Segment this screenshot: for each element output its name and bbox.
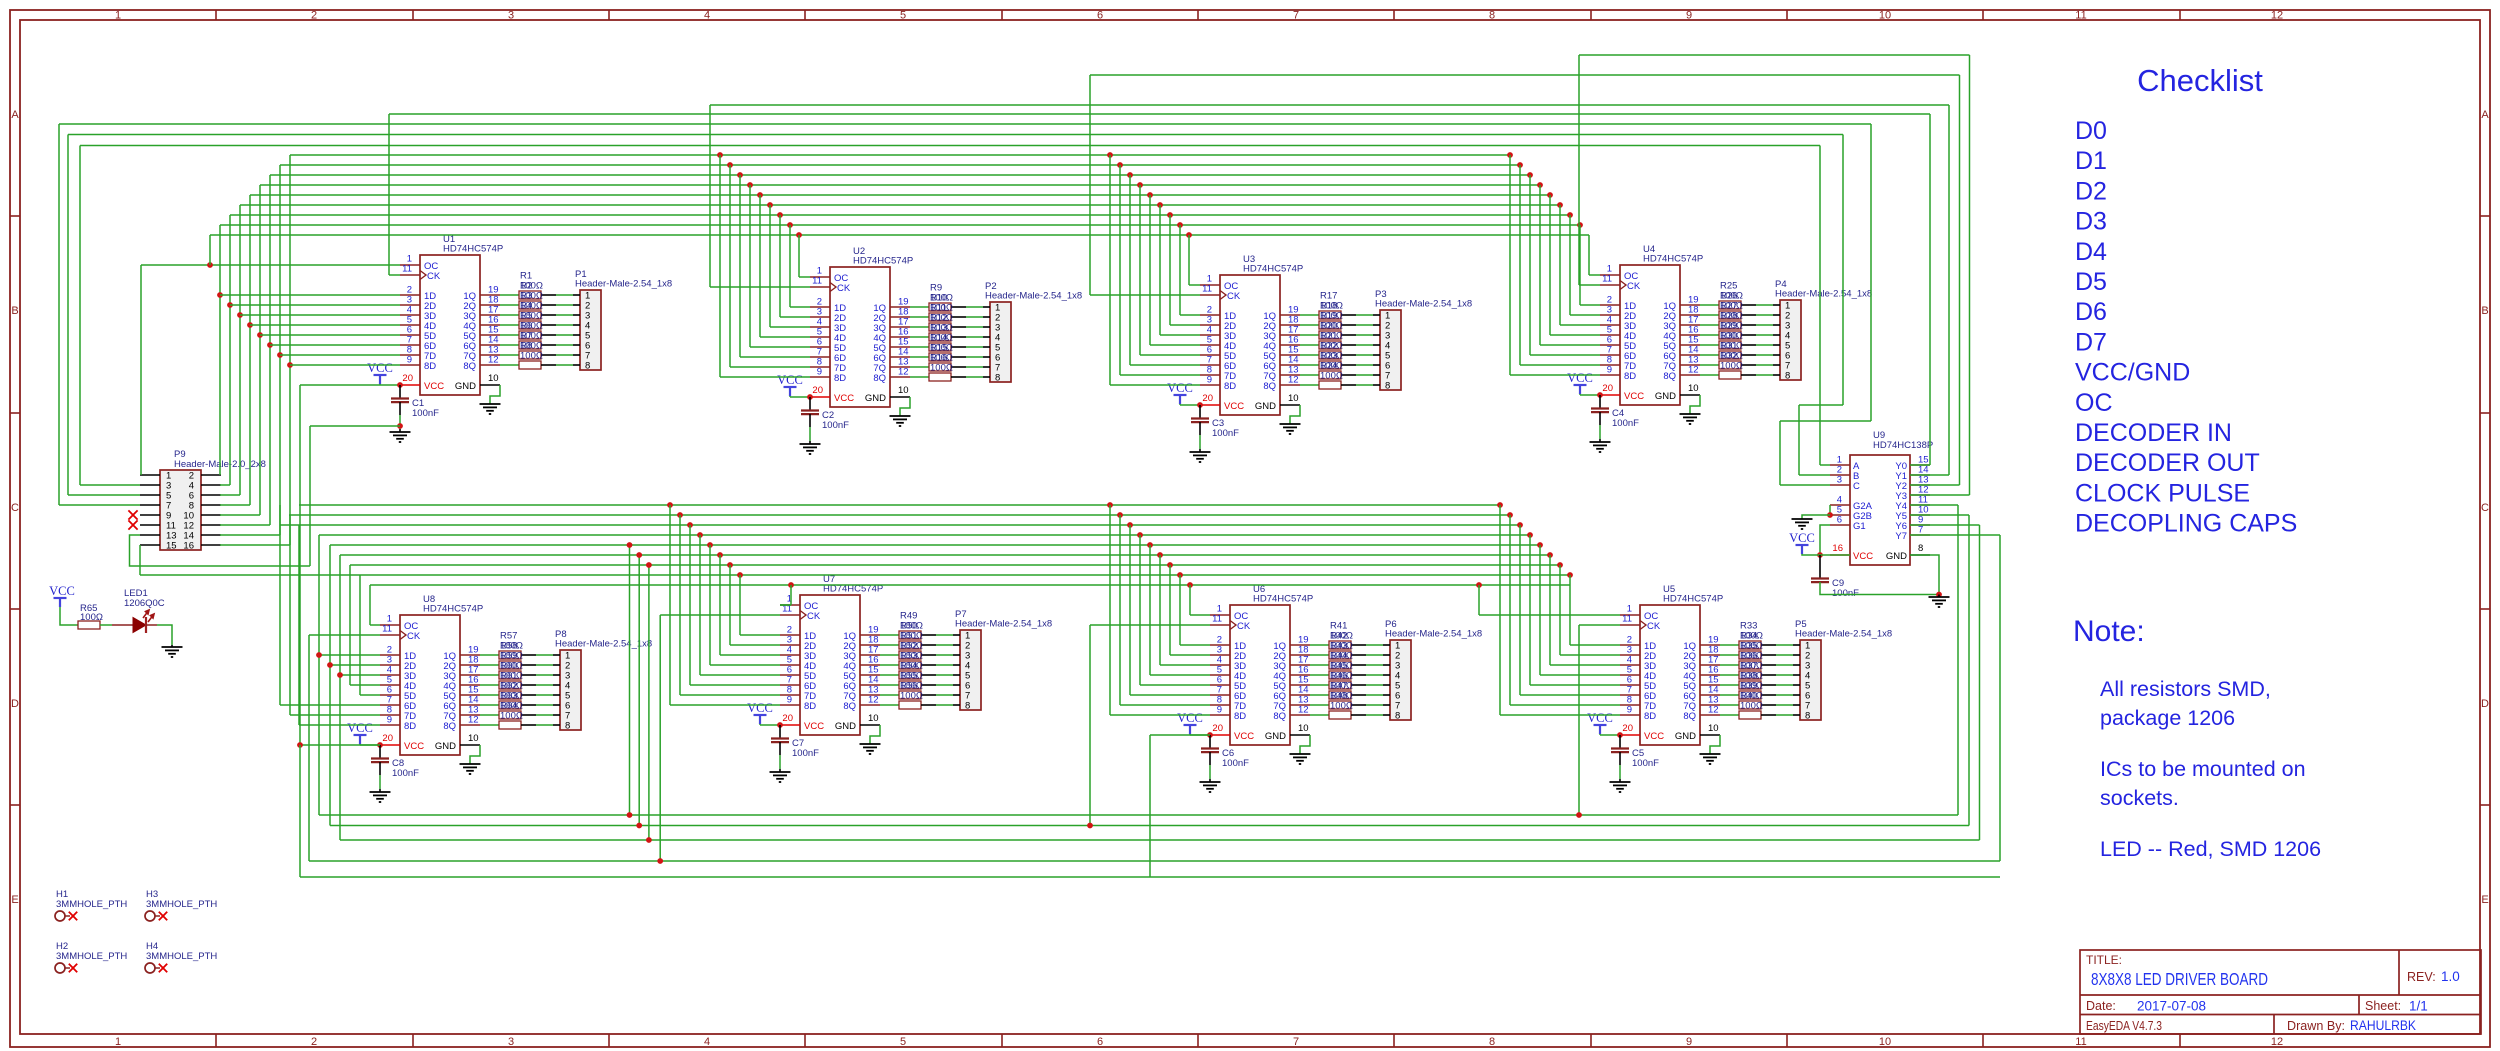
- connector P7 Header-Male-2.54_1x8: [960, 630, 981, 710]
- U6 pin 8 7D: [1210, 704, 1230, 706]
- U4 pin 17 3Q: [1680, 324, 1700, 326]
- U8 pin 17 3Q: [460, 674, 480, 676]
- svg-text:E: E: [11, 894, 18, 906]
- connector P9 Header-Male-2.0_2x8: [160, 470, 201, 550]
- U4 pin 4 3D: [1600, 324, 1620, 326]
- wire resistor R7 to header pin 7: [541, 354, 556, 356]
- svg-text:HD74HC574P: HD74HC574P: [1663, 594, 1723, 605]
- U6 pin 1 OC: [1210, 614, 1230, 616]
- svg-text:8: 8: [1918, 543, 1923, 554]
- svg-text:9: 9: [387, 715, 392, 726]
- resistor R59 100 ohm: [499, 671, 521, 679]
- wire bus to U1 1D: [220, 294, 400, 296]
- wire bus to U5 D pin: [1507, 512, 1513, 518]
- P1 pin 6: [573, 344, 580, 346]
- wire bus to U8 D pin: [330, 664, 380, 666]
- P5 pin 3: [1793, 664, 1800, 666]
- junction on U1 5D: [257, 332, 263, 338]
- IC U2 HD74HC574P: [830, 267, 890, 407]
- svg-text:11: 11: [402, 264, 412, 275]
- capacitor C6 100nF: [1209, 735, 1211, 748]
- wire resistor R10 to header pin 2: [951, 316, 966, 318]
- svg-text:9: 9: [1607, 365, 1612, 376]
- P5 pin 8: [1793, 714, 1800, 716]
- svg-text:G1: G1: [1853, 521, 1866, 532]
- svg-text:11: 11: [1202, 284, 1212, 295]
- svg-text:16: 16: [183, 541, 194, 552]
- P9 pin 12: [201, 524, 221, 526]
- IC U8 HD74HC574P: [400, 615, 460, 755]
- wire bottom data bus y515: [289, 514, 1510, 516]
- svg-text:12: 12: [488, 355, 499, 366]
- wire resistor R43 to header pin 3: [1351, 664, 1366, 666]
- svg-text:Sheet:: Sheet:: [2365, 999, 2401, 1013]
- wire OC drop: [1188, 235, 1190, 285]
- P3 pin 7: [1373, 374, 1380, 376]
- P5 pin 2: [1793, 654, 1800, 656]
- wire bus drop to IC at x780: [777, 212, 783, 218]
- wire OC riser: [209, 235, 211, 265]
- P9 pin 5: [140, 494, 160, 496]
- U5 pin 19 1Q: [1700, 644, 1720, 646]
- U5 pin 17 3Q: [1700, 664, 1720, 666]
- P1 pin 5: [573, 334, 580, 336]
- wire bus drop to IC at x1580: [1577, 222, 1583, 228]
- U1 pin 20 VCC: [400, 384, 420, 386]
- wire U7 3Q to resistor R51: [880, 654, 899, 656]
- P4 pin 7: [1773, 364, 1780, 366]
- U5 pin 8 7D: [1620, 704, 1640, 706]
- U3 pin 15 5Q: [1280, 354, 1300, 356]
- U7 pin 1 OC: [780, 604, 800, 606]
- U6 pin 14 6Q: [1290, 694, 1310, 696]
- wire U3 3Q to resistor R19: [1300, 334, 1319, 336]
- wire U6 4Q to resistor R44: [1310, 674, 1329, 676]
- U9 pin 1 A: [1830, 464, 1850, 466]
- U2 pin 17 3Q: [890, 326, 910, 328]
- wire bus to U5 D pin: [1537, 542, 1543, 548]
- wire bus drop to IC at x790: [787, 222, 793, 228]
- svg-text:HD74HC574P: HD74HC574P: [1243, 264, 1303, 275]
- svg-text:HD74HC574P: HD74HC574P: [1253, 594, 1313, 605]
- wire resistor R18 to header pin 2: [1341, 324, 1356, 326]
- wire Y5 to bottom line: [1910, 514, 1969, 516]
- P6 pin 5: [1383, 684, 1390, 686]
- svg-text:D: D: [2481, 698, 2489, 710]
- P7 pin 7: [953, 694, 960, 696]
- wire data bus line 2: [240, 204, 1560, 206]
- wire resistor R11 to header pin 3: [951, 326, 966, 328]
- wire U3 5Q to resistor R21: [1300, 354, 1319, 356]
- U5 pin 16 4Q: [1700, 674, 1720, 676]
- resistor R53 100 ohm: [899, 671, 921, 679]
- svg-text:Drawn By:: Drawn By:: [2287, 1019, 2345, 1033]
- svg-text:GND: GND: [1886, 551, 1907, 562]
- wire U3 2Q to resistor R18: [1300, 324, 1319, 326]
- ground below C7: [779, 742, 781, 755]
- IC U6 HD74HC574P: [1230, 605, 1290, 745]
- P7 pin 1: [953, 634, 960, 636]
- U3 pin 9 8D: [1200, 384, 1220, 386]
- U2 pin 14 6Q: [890, 356, 910, 358]
- wire U2 6Q to resistor R14: [910, 356, 929, 358]
- ground below C1: [399, 402, 401, 415]
- wire resistor R4 to header pin 4: [541, 324, 556, 326]
- wire data bus line 3: [250, 194, 1550, 196]
- svg-text:9: 9: [787, 695, 792, 706]
- wire resistor R17 to header pin 1: [1341, 314, 1356, 316]
- P8 pin 4: [553, 684, 560, 686]
- svg-text:VCC/GND: VCC/GND: [2075, 359, 2190, 387]
- svg-text:8: 8: [1489, 10, 1495, 22]
- wire mid riser x649: [648, 565, 650, 840]
- resistor R20 100 ohm: [1319, 341, 1341, 349]
- wire VCC trunk bottom: [299, 745, 301, 877]
- ground below C4: [1599, 412, 1601, 425]
- svg-text:7: 7: [1293, 10, 1299, 22]
- wire U1 1Q to resistor R1: [500, 294, 519, 296]
- wire bus to U6 D pin: [1117, 512, 1123, 518]
- svg-text:7: 7: [1918, 525, 1923, 536]
- junction on U1 3D: [237, 312, 243, 318]
- svg-text:8: 8: [1785, 371, 1790, 382]
- svg-text:12: 12: [1688, 365, 1699, 376]
- IC U5 HD74HC574P: [1640, 605, 1700, 745]
- U6 pin 7 6D: [1210, 694, 1230, 696]
- svg-text:5: 5: [900, 10, 906, 22]
- U4 pin 9 8D: [1600, 374, 1620, 376]
- wire bus drop to IC at x1570: [1567, 212, 1573, 218]
- ground below C6: [1209, 752, 1211, 765]
- resistor R19 100 ohm: [1319, 331, 1341, 339]
- U8 pin 9 8D: [380, 724, 400, 726]
- wire U8 8Q to resistor R64: [480, 724, 499, 726]
- U3 pin 20 VCC: [1200, 404, 1220, 406]
- U5 pin 18 2Q: [1700, 654, 1720, 656]
- wire U1 5Q to resistor R5: [500, 334, 519, 336]
- svg-text:D6: D6: [2075, 298, 2107, 326]
- P9 pin 14: [201, 534, 221, 536]
- wire OC drop: [798, 235, 800, 277]
- P9 pin 4: [201, 484, 221, 486]
- svg-text:Header-Male-2.54_1x8: Header-Male-2.54_1x8: [1375, 299, 1472, 310]
- U8 pin 3 2D: [380, 664, 400, 666]
- svg-text:10: 10: [1688, 383, 1699, 394]
- wire resistor R37 to header pin 5: [1761, 684, 1776, 686]
- svg-text:CK: CK: [1647, 621, 1661, 632]
- svg-text:D4: D4: [2075, 238, 2107, 266]
- wire left riser x340: [339, 555, 341, 840]
- wire Y4 to bottom line: [1910, 504, 1958, 506]
- U7 pin 14 6Q: [860, 684, 880, 686]
- capacitor C7 100nF: [779, 725, 781, 738]
- U4 pin 11 CK: [1600, 284, 1620, 286]
- resistor R40 100 ohm: [1739, 711, 1761, 719]
- resistor R11 100 ohm: [929, 323, 951, 331]
- svg-text:OC: OC: [2075, 389, 2113, 417]
- wire resistor R5 to header pin 5: [541, 334, 556, 336]
- wire resistor R40 to header pin 8: [1761, 714, 1776, 716]
- wire bus to U5 D pin: [1497, 502, 1503, 508]
- U7 pin 12 8Q: [860, 704, 880, 706]
- wire OC net P9 pin1 vertical: [140, 265, 142, 475]
- svg-text:E: E: [2481, 894, 2488, 906]
- U3 pin 12 8Q: [1280, 384, 1300, 386]
- junction on U1 4D: [247, 322, 253, 328]
- svg-text:VCC: VCC: [367, 361, 393, 375]
- P3 pin 4: [1373, 344, 1380, 346]
- svg-text:6: 6: [1097, 1036, 1103, 1048]
- resistor R63 100 ohm: [499, 711, 521, 719]
- svg-text:All resistors SMD,: All resistors SMD,: [2100, 677, 2271, 701]
- U3 pin 4 3D: [1200, 334, 1220, 336]
- U9 pin 14 Y1: [1910, 474, 1930, 476]
- wire bus drop to IC at x1550: [1547, 192, 1553, 198]
- svg-text:9: 9: [407, 355, 412, 366]
- wire bus drop to IC at x730: [727, 162, 733, 168]
- wire bus to U6 D pin: [1137, 532, 1143, 538]
- U7 pin 10 GND: [860, 724, 880, 726]
- wire U1 7Q to resistor R7: [500, 354, 519, 356]
- U5 pin 11 CK: [1620, 624, 1640, 626]
- wire decoder input C: [59, 504, 140, 506]
- wire P9 pin15 to bus: [139, 545, 141, 575]
- svg-text:HD74HC138P: HD74HC138P: [1873, 440, 1933, 451]
- wire resistor R34 to header pin 2: [1761, 654, 1776, 656]
- svg-text:11: 11: [1622, 614, 1632, 625]
- resistor R12 100 ohm: [929, 333, 951, 341]
- resistor R36 100 ohm: [1739, 671, 1761, 679]
- svg-text:9: 9: [1686, 10, 1692, 22]
- U3 pin 3 2D: [1200, 324, 1220, 326]
- P5 pin 1: [1793, 644, 1800, 646]
- svg-text:VCC: VCC: [1224, 401, 1244, 412]
- wire resistor R59 to header pin 3: [521, 674, 536, 676]
- svg-text:VCC: VCC: [834, 393, 854, 404]
- svg-text:12: 12: [2271, 1036, 2283, 1048]
- ground at U4 GND pin: [1690, 395, 1700, 414]
- U9 pin 16 VCC: [1830, 554, 1850, 556]
- wire bottom OC line: [370, 584, 1570, 586]
- svg-text:8D: 8D: [1234, 711, 1246, 722]
- U8 pin 13 7Q: [460, 714, 480, 716]
- svg-text:10: 10: [1298, 723, 1309, 734]
- svg-text:D1: D1: [2075, 147, 2107, 175]
- P5 pin 7: [1793, 704, 1800, 706]
- resistor R61 100 ohm: [499, 691, 521, 699]
- svg-text:VCC: VCC: [404, 741, 424, 752]
- wire VCC flag to pin 20 of U8: [360, 744, 380, 746]
- wire net Y1 to CK: [710, 286, 810, 288]
- P9 pin 8: [201, 504, 221, 506]
- wire U2 8Q to resistor R16: [910, 376, 929, 378]
- ground below C3: [1199, 422, 1201, 435]
- svg-text:100nF: 100nF: [822, 420, 849, 431]
- U6 pin 2 1D: [1210, 644, 1230, 646]
- wire VCC flag to pin 20 of U7: [760, 724, 780, 726]
- U6 pin 4 3D: [1210, 664, 1230, 666]
- P6 pin 1: [1383, 644, 1390, 646]
- wire resistor R24 to header pin 8: [1341, 384, 1356, 386]
- U3 pin 19 1Q: [1280, 314, 1300, 316]
- U4 pin 20 VCC: [1600, 394, 1620, 396]
- U2 pin 8 7D: [810, 366, 830, 368]
- wire U6 VCC branch: [1150, 734, 1210, 736]
- P8 pin 5: [553, 694, 560, 696]
- U1 pin 19 1Q: [480, 294, 500, 296]
- svg-text:8Q: 8Q: [873, 373, 886, 384]
- wire bottom data bus y525: [280, 524, 1520, 526]
- U2 pin 16 4Q: [890, 336, 910, 338]
- P9 pin 11: [140, 524, 160, 526]
- wire resistor R14 to header pin 6: [951, 356, 966, 358]
- wire U1 6Q to resistor R6: [500, 344, 519, 346]
- wire U5 CK net: [1579, 624, 1620, 626]
- wire U4 7Q to resistor R31: [1700, 364, 1719, 366]
- svg-text:3: 3: [508, 10, 514, 22]
- wire VCC flag to pin 20 of U4: [1580, 394, 1600, 396]
- connector P5 Header-Male-2.54_1x8: [1800, 640, 1821, 720]
- ground at U2 GND pin: [900, 397, 910, 416]
- wire bus to U5 D pin: [1547, 552, 1553, 558]
- wire U6 2Q to resistor R42: [1310, 654, 1329, 656]
- U9 pin 4 G2A: [1830, 504, 1850, 506]
- P4 pin 8: [1773, 374, 1780, 376]
- svg-text:12: 12: [468, 715, 479, 726]
- wire resistor R51 to header pin 3: [921, 654, 936, 656]
- svg-text:8: 8: [1395, 711, 1400, 722]
- resistor R51 100 ohm: [899, 651, 921, 659]
- wire U1 8Q to resistor R8: [500, 364, 519, 366]
- U1 pin 1 OC: [400, 264, 420, 266]
- U7 pin 19 1Q: [860, 634, 880, 636]
- U3 pin 14 6Q: [1280, 364, 1300, 366]
- wire bus to U7 D pin: [707, 542, 713, 548]
- wire stub U7 OC: [780, 604, 791, 606]
- U5 pin 14 6Q: [1700, 694, 1720, 696]
- U2 pin 20 VCC: [810, 396, 830, 398]
- P2 pin 4: [983, 336, 990, 338]
- U3 pin 10 GND: [1280, 404, 1300, 406]
- wire resistor R39 to header pin 7: [1761, 704, 1776, 706]
- U6 pin 10 GND: [1290, 734, 1310, 736]
- wire U1 2Q to resistor R2: [500, 304, 519, 306]
- svg-text:Note:: Note:: [2073, 615, 2145, 648]
- U2 pin 18 2Q: [890, 316, 910, 318]
- P2 pin 5: [983, 346, 990, 348]
- U7 pin 16 4Q: [860, 664, 880, 666]
- U1 pin 18 2Q: [480, 304, 500, 306]
- svg-text:16: 16: [1832, 543, 1843, 554]
- U2 pin 11 CK: [810, 286, 830, 288]
- wire resistor R22 to header pin 6: [1341, 364, 1356, 366]
- svg-text:20: 20: [1212, 723, 1223, 734]
- resistor R17 100 ohm: [1319, 311, 1341, 319]
- ground at U9 G2A/G2B: [1829, 505, 1831, 515]
- U7 pin 3 2D: [780, 644, 800, 646]
- U7 pin 20 VCC: [780, 724, 800, 726]
- IC U9 HD74HC138P: [1850, 455, 1910, 565]
- svg-text:100Ω: 100Ω: [1320, 371, 1343, 382]
- resistor R26 100 ohm: [1719, 311, 1741, 319]
- P1 pin 8: [573, 364, 580, 366]
- svg-text:HD74HC574P: HD74HC574P: [1643, 254, 1703, 265]
- wire bus drop to IC at x1110: [1107, 152, 1113, 158]
- wire bus drop to IC at x1530: [1527, 172, 1533, 178]
- wire resistor R45 to header pin 5: [1351, 684, 1366, 686]
- P9 pin 16: [201, 544, 221, 546]
- wire bottom data bus y555: [340, 554, 1550, 556]
- U9 pin 2 B: [1830, 474, 1850, 476]
- wire bus to U8 D pin: [319, 654, 380, 656]
- resistor R62 100 ohm: [499, 701, 521, 709]
- svg-text:9: 9: [1207, 375, 1212, 386]
- resistor R32 100 ohm: [1719, 371, 1741, 379]
- svg-text:DECODER IN: DECODER IN: [2075, 419, 2232, 447]
- U3 pin 7 6D: [1200, 364, 1220, 366]
- wire U3 7Q to resistor R23: [1300, 374, 1319, 376]
- wire U4 1Q to resistor R25: [1700, 304, 1719, 306]
- wire bus to U7 D pin: [677, 512, 683, 518]
- U8 pin 20 VCC: [380, 744, 400, 746]
- U3 pin 5 4D: [1200, 344, 1220, 346]
- svg-text:VCC: VCC: [1853, 551, 1873, 562]
- svg-text:CK: CK: [1237, 621, 1251, 632]
- svg-text:9: 9: [1686, 1036, 1692, 1048]
- svg-text:11: 11: [1212, 614, 1222, 625]
- wire VCC trunk U1 to U8: [299, 385, 301, 745]
- wire bus to U1 7D: [280, 354, 400, 356]
- svg-text:100Ω: 100Ω: [1740, 701, 1763, 712]
- svg-text:4: 4: [704, 10, 710, 22]
- wire resistor R38 to header pin 6: [1761, 694, 1776, 696]
- U2 pin 10 GND: [890, 396, 910, 398]
- wire U7 5Q to resistor R53: [880, 674, 899, 676]
- resistor R7 100 ohm: [519, 351, 541, 359]
- wire bus drop to IC at x1170: [1167, 212, 1173, 218]
- U2 pin 7 6D: [810, 356, 830, 358]
- wire net Y5 bottom line: [330, 825, 1969, 827]
- U6 pin 5 4D: [1210, 674, 1230, 676]
- IC U7 HD74HC574P: [800, 595, 860, 735]
- P4 pin 6: [1773, 354, 1780, 356]
- wire U7 6Q to resistor R54: [880, 684, 899, 686]
- U9 pin 12 Y3: [1910, 494, 1930, 496]
- wire resistor R26 to header pin 2: [1741, 314, 1756, 316]
- P7 pin 2: [953, 644, 960, 646]
- svg-text:VCC: VCC: [777, 373, 803, 387]
- svg-text:8D: 8D: [1644, 711, 1656, 722]
- wire bus to U1 4D: [250, 324, 400, 326]
- P9 pin 2: [201, 474, 221, 476]
- U1 pin 8 7D: [400, 354, 420, 356]
- junction on U1 2D: [227, 302, 233, 308]
- wire resistor R55 to header pin 7: [921, 694, 936, 696]
- svg-text:100nF: 100nF: [412, 408, 439, 419]
- svg-text:8D: 8D: [1624, 371, 1636, 382]
- U9 pin 6 G1: [1830, 524, 1850, 526]
- wire resistor R33 to header pin 1: [1761, 644, 1776, 646]
- svg-text:Header-Male-2.54_1x8: Header-Male-2.54_1x8: [985, 291, 1082, 302]
- wire U4 6Q to resistor R30: [1700, 354, 1719, 356]
- U7 pin 15 5Q: [860, 674, 880, 676]
- P7 pin 4: [953, 664, 960, 666]
- U8 pin 4 3D: [380, 674, 400, 676]
- P9 pin 3: [140, 484, 160, 486]
- svg-text:100Ω: 100Ω: [900, 691, 923, 702]
- U6 pin 11 CK: [1210, 624, 1230, 626]
- resistor R39 100 ohm: [1739, 701, 1761, 709]
